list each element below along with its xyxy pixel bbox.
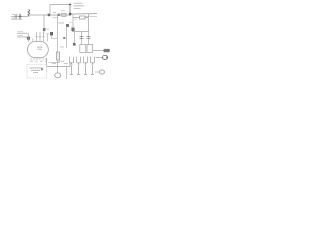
cap column mid (81, 32, 83, 45)
cap column left (74, 32, 76, 44)
vertical x70 short (69, 62, 71, 67)
socket 3 (84, 57, 88, 63)
capacitor blob on bus (58, 14, 60, 17)
resistor R5 box (79, 16, 85, 19)
motor M1 ellipse (55, 73, 61, 78)
east row2 ring dark pin (106, 56, 108, 58)
stub labels (18, 31, 24, 36)
label speck above bus (53, 11, 56, 14)
left stub row2 (17, 36, 28, 38)
fuse F1 vertical squiggle (28, 9, 30, 16)
top-right text block (74, 3, 85, 9)
cap plates mid (80, 37, 84, 39)
IC label text (37, 47, 43, 50)
text specks left of Q1 (69, 21, 71, 24)
diode junction diamond (69, 13, 71, 15)
wire fuse to bus (29, 14, 44, 16)
vertical net x44 (43, 15, 45, 33)
IC U1 rounded body (28, 42, 49, 58)
label speck near x62 (60, 46, 64, 49)
socket U-shapes row (70, 57, 74, 63)
main bus wire (44, 14, 70, 16)
vertical bar to motor (57, 60, 59, 73)
component blob on x44 (43, 28, 45, 31)
label speck above resistor R1 (61, 9, 65, 12)
junction blob on bus (48, 14, 50, 17)
bottom bus wire (47, 66, 70, 68)
label mid (59, 22, 65, 25)
relay K1 box (80, 45, 86, 53)
pin ticks (35, 36, 45, 38)
extra pin tick (32, 38, 34, 41)
tiny arrow marks at socket bottoms (71, 63, 94, 65)
wire row2 (11, 18, 23, 20)
vertical right edge of dashed box (46, 58, 48, 67)
component at box top-left (27, 37, 30, 40)
crystal X1 bar (56, 52, 59, 60)
east row2 ring (103, 55, 108, 59)
vertical net right of block (88, 14, 90, 32)
resistor R1 box on bus (62, 13, 66, 16)
relay K2 box (87, 45, 93, 53)
socket 4 (91, 57, 95, 63)
dashed box (27, 65, 47, 79)
label specks right of x44 (46, 28, 49, 31)
polarized capacitor C2 cross (19, 14, 22, 20)
dashed box text (30, 68, 43, 73)
bottom bus of block (72, 31, 89, 33)
bus to right edge (71, 13, 97, 15)
bottom pins of box (31, 58, 46, 60)
vertical x66.5 bottom (66, 67, 68, 79)
vertical into box left (27, 33, 29, 41)
east row1 wire (93, 50, 104, 52)
transistor Q2 blob (66, 24, 69, 27)
pin verticals above box (37, 34, 44, 42)
capacitor C1 bars (15, 15, 16, 18)
vertical mid column (57, 15, 59, 52)
blob on stub (63, 37, 65, 39)
wire left of bar (49, 62, 61, 64)
stub wire to mid column (52, 17, 58, 19)
cap column right (88, 32, 90, 45)
bypass wire up and over (50, 5, 70, 16)
label left of Q3 (46, 32, 49, 35)
socket pins and feet (70, 65, 94, 75)
R5 label speck (74, 18, 77, 21)
second wire below bus (85, 15, 97, 17)
label text specks top-left (12, 14, 18, 18)
east row3 wire (95, 71, 99, 73)
pin top specks (36, 32, 44, 33)
transistor Q1 blob (71, 28, 74, 31)
right pin vertical (47, 34, 49, 42)
Q3 emitter wire (52, 35, 58, 38)
vertical net x66.5 (66, 27, 68, 48)
cap blob left column (73, 43, 76, 46)
wire row1 left chain (11, 15, 28, 17)
base stub tick (64, 37, 67, 39)
vertical net left of block (72, 14, 74, 32)
speck in dashed box (41, 68, 43, 70)
socket 2 (77, 57, 81, 63)
cap plates right (87, 37, 91, 39)
transistor Q3 blob (50, 32, 53, 35)
east row3 ring (99, 70, 104, 74)
east row2 wire (96, 57, 103, 59)
diode D1 (69, 4, 72, 6)
bottom pin labels (30, 60, 47, 63)
east row1 plug blob (104, 49, 110, 52)
branch wire resistor row (73, 17, 89, 19)
left stub row1 (17, 32, 28, 34)
labels above bottom bus (52, 61, 68, 64)
